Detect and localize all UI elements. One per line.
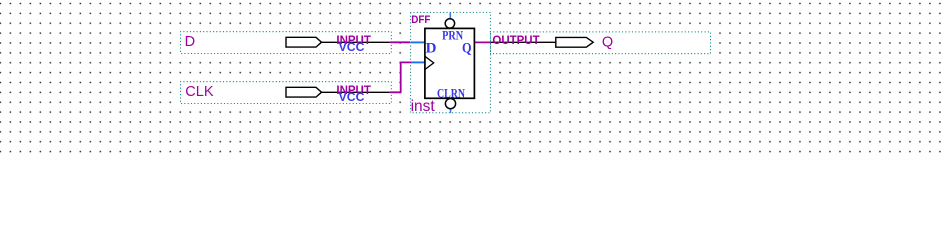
svg-text:CLRN: CLRN (437, 85, 465, 100)
svg-text:D: D (426, 41, 437, 57)
svg-text:inst: inst (411, 98, 436, 115)
svg-text:Q: Q (602, 35, 613, 51)
svg-text:VCC: VCC (339, 92, 365, 104)
svg-text:OUTPUT: OUTPUT (492, 35, 539, 47)
svg-text:Q: Q (462, 41, 472, 57)
svg-text:DFF: DFF (411, 14, 430, 26)
svg-text:VCC: VCC (339, 42, 365, 54)
svg-text:D: D (185, 34, 195, 50)
svg-text:CLK: CLK (185, 84, 214, 100)
svg-text:PRN: PRN (442, 28, 463, 43)
